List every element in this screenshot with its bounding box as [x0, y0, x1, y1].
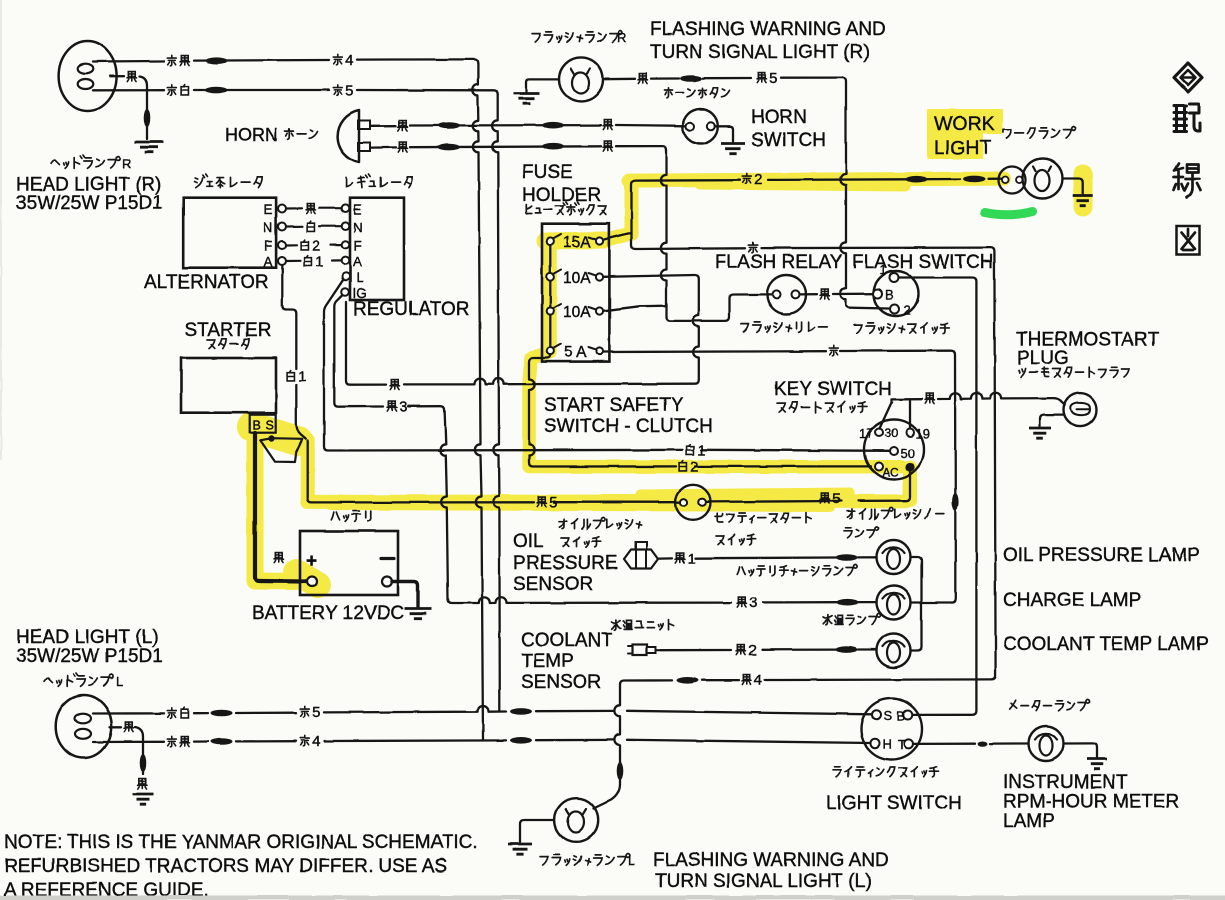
svg-text:FLASH RELAY: FLASH RELAY — [715, 252, 843, 273]
label fuse 10A (third) — [563, 304, 591, 321]
label フラッシャランプL — [540, 853, 635, 868]
wire 黒1 oil sensor to oil pressure lamp — [661, 554, 876, 561]
label fuse 10A (second) — [563, 270, 591, 287]
label オイルプレッシャ — [559, 518, 642, 529]
wire alternator A to regulator A — [286, 259, 342, 262]
wire flasher R to ground — [527, 79, 560, 91]
svg-text:AC: AC — [882, 466, 899, 480]
svg-text:30: 30 — [885, 426, 899, 440]
kanji 線 — [1174, 164, 1201, 198]
text NOTE block — [4, 832, 478, 900]
svg-text:ALTERNATOR: ALTERNATOR — [144, 272, 269, 293]
wire flasher L drop — [594, 685, 624, 809]
text HORN SWITCH — [751, 107, 826, 151]
label 白2 on wire — [679, 459, 698, 476]
svg-text:E: E — [264, 202, 273, 217]
wire flash switch pin1 to light switch B — [899, 278, 977, 715]
svg-text:5: 5 — [832, 491, 840, 508]
label ワークランプ — [1003, 127, 1075, 139]
ground symbol headlight L — [133, 794, 154, 804]
label ホーンボタン — [664, 88, 730, 98]
label セフティースタート — [715, 513, 811, 523]
label 白2 row F — [301, 238, 320, 255]
head light L lamp body — [56, 695, 112, 758]
alternator box — [183, 198, 276, 268]
wire thermostart to ground — [1040, 415, 1064, 426]
text TURN SIGNAL LIGHT (R) — [650, 42, 870, 63]
svg-text:LAMP: LAMP — [1003, 811, 1055, 832]
text FLASH RELAY — [715, 252, 843, 273]
svg-text:HOLDER: HOLDER — [522, 185, 601, 206]
kanji 図 — [1177, 226, 1200, 255]
fuse holder box — [542, 224, 609, 362]
svg-text:FLASHING WARNING AND: FLASHING WARNING AND — [650, 19, 886, 40]
wire 白2 fuse 5A to key switch AC — [529, 355, 871, 467]
text HEAD LIGHT (R) — [16, 175, 161, 196]
svg-text:A: A — [353, 255, 362, 270]
regulator box — [350, 198, 404, 300]
wire 赤黒/赤4 headlight R to trunk — [93, 57, 478, 64]
regulator pins — [341, 204, 349, 295]
label 黒 on thermostart wire — [925, 394, 934, 404]
text FUSE HOLDER — [522, 162, 601, 206]
svg-text:4: 4 — [754, 672, 762, 689]
label 黒5 near key switch — [820, 491, 840, 508]
lamp bus wiring — [911, 557, 952, 651]
label ヘッドランプL — [44, 673, 123, 689]
svg-text:H: H — [883, 737, 892, 752]
svg-text:2: 2 — [748, 642, 756, 659]
label スタートスイッチ — [777, 402, 867, 413]
wire 白1 alternator A to starter S junction — [282, 265, 306, 439]
text OIL PRESSURE LAMP — [1003, 545, 1200, 566]
svg-text:FLASH SWITCH: FLASH SWITCH — [852, 252, 993, 273]
svg-text:SENSOR: SENSOR — [521, 672, 601, 693]
svg-text:PRESSURE: PRESSURE — [513, 553, 618, 574]
label オイルプレッシノー — [847, 508, 944, 519]
svg-text:FLASHING WARNING AND: FLASHING WARNING AND — [653, 850, 889, 871]
wire 黒2 coolant sensor to coolant temp lamp — [661, 646, 876, 653]
text LIGHT SWITCH — [826, 793, 962, 814]
label 白 row N — [307, 221, 314, 231]
highlighter: fuse bus + white-2 wire to key switch (yellow) — [529, 240, 901, 468]
svg-text:START SAFETY: START SAFETY — [544, 395, 684, 416]
label 赤黒 on wire (L) — [167, 736, 189, 747]
svg-text:REGULATOR: REGULATOR — [353, 299, 470, 320]
label ライティンクスイッチ — [833, 767, 938, 777]
svg-text:35W/25W P15D1: 35W/25W P15D1 — [16, 193, 163, 214]
text CHARGE LAMP — [1003, 590, 1141, 611]
battery - terminal — [381, 559, 394, 587]
label スイッチ (oil) — [561, 537, 601, 547]
wire 赤 fuse to flasher trunk — [632, 233, 996, 679]
svg-text:PLUG: PLUG — [1017, 348, 1069, 369]
wire 赤2 fuse 15A to work light — [604, 176, 1002, 240]
label メーターランプ — [1009, 700, 1089, 711]
ground symbol work light — [1073, 196, 1093, 206]
light switch — [861, 699, 922, 760]
head light R lamp body — [59, 41, 117, 111]
text HEAD LIGHT (L) — [16, 627, 158, 648]
text REGULATOR — [353, 299, 470, 320]
label 赤4 on wire (L) — [300, 733, 320, 750]
svg-text:RPM-HOUR METER: RPM-HOUR METER — [1003, 792, 1179, 813]
label フラッシャランプR — [532, 30, 626, 45]
label 黒1 on wire — [675, 551, 695, 568]
charge lamp — [877, 586, 911, 620]
coolant temp sensor — [628, 645, 661, 656]
wire alternator E to regulator E — [286, 207, 342, 210]
svg-text:T: T — [898, 737, 906, 752]
svg-text:5: 5 — [312, 704, 320, 721]
label 黒2 on wire — [736, 642, 756, 659]
svg-text:TURN SIGNAL LIGHT (R): TURN SIGNAL LIGHT (R) — [650, 42, 870, 63]
flash switch — [873, 271, 919, 316]
svg-text:2: 2 — [690, 459, 698, 476]
wire 赤黒/赤4 headlight L to light switch H — [93, 737, 871, 745]
battery + terminal — [306, 551, 317, 587]
label 黒 near battery + — [274, 553, 283, 563]
label 黒 on horn wire 1 (left) — [398, 121, 407, 131]
label 黒3 on regulator wire — [387, 399, 407, 416]
text FLASHING WARNING AND (L) — [653, 850, 889, 871]
highlighter: work light circuit (yellow) — [604, 109, 1083, 241]
svg-text:B: B — [253, 419, 261, 433]
label 黒 on regulator wire — [390, 380, 399, 390]
instrument rpm-hour meter lamp — [1029, 726, 1064, 761]
wire 赤白/赤5 headlight R to trunk — [93, 87, 498, 95]
svg-text:3: 3 — [399, 399, 407, 416]
label 黒 row E — [306, 204, 315, 214]
text 35W/25W P15D1 — [16, 193, 163, 214]
svg-text:TURN SIGNAL LIGHT (L): TURN SIGNAL LIGHT (L) — [655, 871, 871, 892]
svg-text:WORK: WORK — [934, 113, 995, 135]
wire work light to ground — [1063, 179, 1083, 194]
svg-text:17: 17 — [859, 426, 873, 441]
label 黒 on horn wire 2 (right) — [603, 141, 612, 151]
label 黒 on horn wire 2 (left) — [398, 142, 407, 152]
label レギュレータ — [346, 174, 412, 188]
label fuse 5A — [564, 344, 587, 361]
svg-text:F: F — [354, 239, 362, 254]
svg-text:HEAD LIGHT (L): HEAD LIGHT (L) — [16, 627, 158, 648]
highlighter: battery/starter/safety-start circuit (yellow) — [252, 427, 910, 585]
svg-text:HORN: HORN — [225, 125, 278, 145]
svg-text:FUSE: FUSE — [522, 162, 573, 183]
svg-text:5 A: 5 A — [564, 344, 587, 361]
wire 黒 headlight L ground stub — [110, 727, 146, 774]
fuse bus and fuse elements F1-F4 — [547, 234, 603, 355]
svg-text:KEY SWITCH: KEY SWITCH — [774, 379, 892, 400]
svg-text:1: 1 — [687, 551, 695, 568]
thermostart plug — [1064, 393, 1097, 426]
label 赤黒 on wire — [167, 55, 189, 65]
label 赤4 on wire — [333, 52, 353, 69]
text ALTERNATOR — [144, 272, 269, 293]
wire 黒4 flasher L to trunk — [620, 677, 992, 685]
ground symbol flasher R — [514, 94, 540, 104]
svg-text:S: S — [884, 708, 893, 723]
label 水温ユニット — [612, 620, 674, 630]
wire 黒 regulator to fuse 10A-1 — [346, 275, 699, 385]
svg-text:OIL: OIL — [513, 531, 544, 552]
svg-text:5: 5 — [549, 494, 557, 511]
svg-text:+: + — [306, 551, 317, 572]
svg-text:REFURBISHED TRACTORS MAY DIFFE: REFURBISHED TRACTORS MAY DIFFER. USE AS — [4, 856, 447, 877]
label 赤白 on wire (L) — [167, 708, 188, 719]
wire flash relay to flash switch B — [800, 293, 874, 296]
flash switch pin labels — [880, 263, 911, 318]
ground symbol thermostart — [1029, 428, 1051, 438]
svg-text:19: 19 — [916, 426, 930, 441]
svg-text:3: 3 — [749, 595, 757, 612]
label 赤2 on work light wire — [742, 171, 762, 188]
svg-text:L: L — [628, 853, 635, 868]
starter solenoid contact polygon — [260, 435, 302, 462]
svg-text:E: E — [353, 202, 362, 217]
label 白1 on wire near key switch — [686, 442, 705, 459]
text KEY SWITCH — [774, 379, 892, 400]
svg-text:B: B — [897, 709, 906, 724]
wire light switch T to instrument lamp — [913, 741, 1028, 746]
label 黒5 on flasher wire — [757, 70, 777, 87]
wire trunk 赤5 vertical x=497.7 — [492, 94, 500, 711]
svg-text:COOLANT: COOLANT — [521, 630, 613, 651]
label スイッチ (safety) — [716, 535, 756, 545]
text INSTRUMENT RPM-HOUR METER LAMP — [1003, 772, 1179, 832]
label fuse 15A — [563, 234, 591, 251]
wire instrument lamp to ground — [1064, 743, 1098, 757]
wire trunk 赤4 vertical x=478 — [472, 63, 483, 740]
svg-text:N: N — [353, 220, 363, 235]
svg-text:NOTE: THIS IS THE YANMAR ORIG: NOTE: THIS IS THE YANMAR ORIGINAL SCHEMA… — [4, 832, 478, 853]
svg-text:LIGHT: LIGHT — [934, 137, 992, 159]
text STARTER — [185, 320, 272, 341]
alternator pins — [278, 205, 286, 266]
horn speaker symbol — [338, 111, 370, 163]
svg-text:2: 2 — [312, 238, 320, 255]
coolant temp lamp — [877, 634, 911, 668]
wire horn terminal 2 to flasher feed trunk — [371, 143, 667, 151]
wire battery cable starter B to battery + — [255, 433, 306, 582]
text START SAFETY SWITCH - CLUTCH — [544, 395, 713, 437]
svg-text:COOLANT TEMP LAMP: COOLANT TEMP LAMP — [1003, 634, 1209, 655]
svg-text:B: B — [885, 287, 894, 302]
svg-text:SWITCH - CLUTCH: SWITCH - CLUTCH — [544, 416, 713, 437]
text FLASH SWITCH — [852, 252, 993, 273]
label ヘッドランプR — [51, 155, 131, 171]
label 黒 on flasher wire — [638, 74, 647, 84]
ground symbol horn switch — [721, 144, 745, 154]
label 黒 above ground (L) — [138, 779, 147, 789]
label 赤5 on wire — [333, 83, 353, 100]
wire alternator N to regulator N — [286, 225, 342, 228]
svg-text:35W/25W P15D1: 35W/25W P15D1 — [16, 646, 163, 667]
svg-text:SENSOR: SENSOR — [513, 574, 593, 595]
wire flasher L to ground — [520, 820, 555, 842]
svg-text:1: 1 — [315, 254, 323, 271]
svg-text:BATTERY 12VDC: BATTERY 12VDC — [252, 603, 404, 624]
wire battery - to ground — [392, 582, 418, 607]
wire fuse 10A-2 to relay feed node — [603, 306, 666, 311]
work light lamp — [999, 159, 1063, 199]
regulator pin letters — [353, 202, 367, 301]
text 35W/25W P15D1 (L) — [16, 646, 163, 667]
start safety switch clutch — [676, 485, 711, 520]
svg-text:S: S — [266, 419, 274, 433]
oil pressure sensor — [624, 542, 661, 569]
wire alternator F to regulator F — [286, 244, 342, 247]
svg-text:10A: 10A — [563, 270, 591, 287]
ground symbol flasher L — [508, 844, 532, 854]
flashing warning lamp L — [555, 798, 599, 842]
svg-text:INSTRUMENT: INSTRUMENT — [1003, 772, 1128, 793]
svg-text:15A: 15A — [563, 234, 591, 251]
starter box — [181, 358, 276, 413]
label 黒3 near charge lamp — [737, 595, 757, 612]
wire 赤 fuse 5A to lamp bus — [603, 351, 959, 603]
battery box — [300, 531, 398, 595]
label 黒 between relay and switch — [820, 289, 829, 299]
svg-text:R: R — [617, 30, 626, 45]
svg-text:F: F — [264, 239, 272, 254]
label ハッテリチャーシランプ — [737, 565, 857, 576]
svg-text:1: 1 — [697, 442, 705, 459]
key switch pin labels — [859, 426, 930, 480]
svg-text:5: 5 — [345, 83, 353, 100]
label 黒5 on wire — [537, 494, 557, 511]
label ジェネレータ — [195, 174, 263, 188]
label 赤白 on wire — [167, 85, 188, 96]
wire flash relay feed from fuse bus — [661, 150, 772, 321]
svg-text:OIL PRESSURE LAMP: OIL PRESSURE LAMP — [1003, 545, 1200, 566]
svg-text:HORN: HORN — [751, 107, 807, 128]
wire 黒5 flasher R to flash switch pin 2 — [603, 75, 889, 308]
label ホーン — [285, 129, 318, 140]
logo diamond (Yanmar mark) — [1174, 63, 1202, 92]
oil pressure lamp — [877, 540, 911, 574]
label ランプ (oil lamp) — [844, 527, 879, 538]
svg-text:TEMP: TEMP — [521, 651, 574, 672]
svg-text:LIGHT SWITCH: LIGHT SWITCH — [826, 793, 962, 814]
text WORK LIGHT — [934, 113, 995, 159]
horn switch — [683, 109, 718, 144]
label 赤 on flasher feed — [748, 242, 757, 253]
label 白1 row A — [304, 254, 323, 271]
text HORN — [225, 125, 278, 145]
label 黒 on headlight L stub — [124, 722, 133, 732]
text TURN SIGNAL LIGHT (L) — [655, 871, 871, 892]
label 赤5 on wire (L) — [300, 704, 320, 721]
wire 黒 headlight R ground stub — [110, 76, 150, 139]
flash relay — [767, 275, 806, 314]
svg-text:5: 5 — [769, 70, 777, 87]
label フラッシャスイッチ — [854, 323, 949, 334]
label ツーモスタートフラフ — [1019, 367, 1129, 377]
wire 黒5 key switch AC to safety start switch — [707, 472, 910, 502]
label スタータ — [207, 339, 249, 349]
svg-text:2: 2 — [754, 171, 762, 188]
label 黒 on horn wire 1 (right) — [603, 120, 612, 130]
text THERMOSTART PLUG — [1016, 330, 1159, 370]
ground symbol instrument lamp — [1087, 759, 1107, 769]
svg-text:R: R — [122, 156, 131, 171]
wire 黒 key switch to thermostart plug — [880, 393, 1065, 429]
svg-text:L: L — [116, 674, 123, 689]
svg-text:1: 1 — [298, 369, 306, 386]
svg-text:CHARGE LAMP: CHARGE LAMP — [1003, 590, 1141, 611]
text COOLANT TEMP SENSOR — [521, 630, 613, 693]
text BATTERY 12VDC — [252, 603, 404, 624]
label 黒4 on wire — [742, 672, 762, 689]
label フラッシャリレー — [741, 322, 827, 333]
label 赤 on 5A wire — [829, 345, 838, 356]
label 白1 on alternator-starter wire — [287, 369, 306, 386]
svg-text:L: L — [356, 271, 364, 286]
wire 黒5 starter S to safety switch — [308, 441, 681, 503]
flashing warning lamp R — [559, 57, 603, 101]
svg-text:10A: 10A — [563, 304, 591, 321]
svg-text:2: 2 — [904, 303, 911, 318]
svg-text:STARTER: STARTER — [185, 320, 272, 341]
key switch — [864, 420, 924, 480]
starter B S terminal box — [250, 415, 276, 433]
svg-text:N: N — [263, 220, 273, 235]
label 黒 on headlight R stub — [127, 72, 136, 82]
text FLASHING WARNING AND — [650, 19, 886, 40]
svg-text:A: A — [264, 255, 273, 270]
label ヒューズボックス — [526, 202, 606, 215]
alternator pin letters E N F A — [263, 202, 273, 270]
wire horn switch to ground — [715, 126, 733, 141]
label ハッテリ — [331, 511, 371, 521]
kanji 配 — [1174, 104, 1200, 132]
wire 黒3 regulator IG to charge lamp — [334, 296, 876, 606]
text COOLANT TEMP LAMP — [1003, 634, 1209, 655]
svg-text:4: 4 — [312, 733, 320, 750]
wire 白1 regulator L to key switch — [324, 280, 890, 451]
wire horn terminal 1 to horn switch — [371, 122, 686, 129]
svg-text:4: 4 — [345, 52, 353, 69]
wire 赤白/赤5 headlight L to light switch S — [93, 706, 872, 716]
light switch pin letters — [883, 708, 906, 752]
text OIL PRESSURE SENSOR — [513, 531, 618, 595]
highlighter: green mark under work light — [985, 212, 1033, 215]
label 水温ランプ (coolant) — [823, 614, 881, 625]
svg-text:50: 50 — [901, 446, 915, 461]
ground symbol battery — [405, 609, 432, 619]
ground symbol headlight R — [135, 142, 164, 152]
svg-text:SWITCH: SWITCH — [751, 130, 826, 151]
